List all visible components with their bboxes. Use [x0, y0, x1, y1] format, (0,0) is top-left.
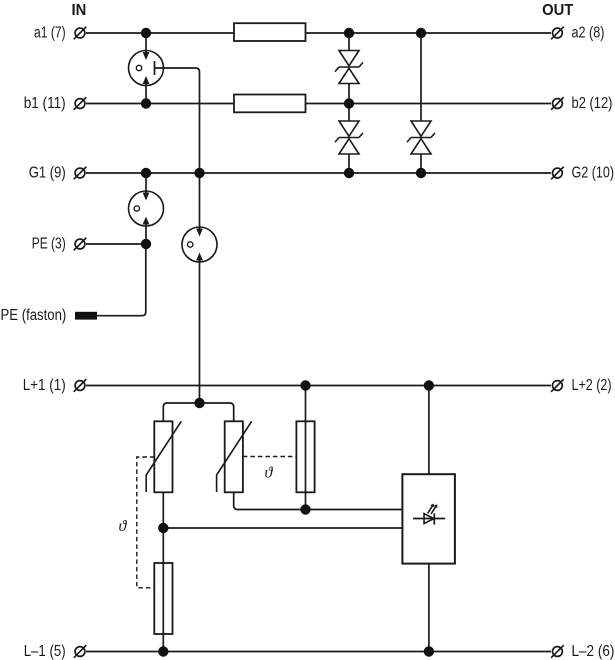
junction F5/L- [158, 646, 168, 656]
wire LED box to L- [428, 564, 430, 652]
terminal L-1 (5) [24, 643, 87, 660]
terminal b1 (11) [24, 95, 87, 112]
suppressor diode V2 (b2-G2) [335, 104, 363, 174]
wire RV2 to bus A [234, 492, 403, 510]
thermal link ϑ RV2-F4 (dashed) [243, 456, 297, 458]
wire node to LED box (bus B) [163, 527, 402, 529]
svg-text:b2 (12): b2 (12) [572, 95, 613, 112]
junction GDT3/varistor bus [194, 398, 204, 408]
junction RV1/bus B [158, 523, 168, 533]
terminal PE (3) [32, 236, 87, 253]
junction LED/L- [424, 646, 434, 656]
wire GDT3 to varistor bus (crosses L+ line) [199, 261, 201, 404]
svg-text:L+2 (2): L+2 (2) [572, 377, 612, 394]
junction PE/GDT2 [141, 239, 151, 249]
varistor RV1 [146, 421, 181, 492]
junction F4/bus A [300, 504, 310, 514]
svg-text:IN: IN [72, 2, 87, 19]
theta label 2 [119, 518, 128, 535]
svg-text:a1 (7): a1 (7) [34, 25, 66, 42]
wire L+1-L+2 [86, 385, 551, 387]
svg-text:PE (faston): PE (faston) [1, 307, 67, 324]
svg-text:a2 (8): a2 (8) [572, 25, 605, 42]
terminal G1 (9) [29, 165, 87, 182]
wire L-1-L-2 [86, 651, 551, 653]
PE faston blade [75, 312, 97, 320]
wire G1 to GDT3 [199, 173, 201, 229]
thermal link ϑ RV1-F5 (dashed) [137, 457, 155, 588]
wire PE to faston [97, 244, 146, 316]
disconnector F5 [154, 563, 172, 634]
terminal G2 (10) [551, 165, 614, 182]
terminal a2 (8) [551, 25, 604, 42]
junction a2/V3 [416, 28, 426, 38]
suppressor diode V3 (a2-G2) [407, 33, 435, 173]
junction G1/GDT2 [141, 168, 151, 178]
junction L+/LED [424, 380, 434, 390]
wire GDT2 to PE junction [145, 225, 147, 245]
terminal a1 (7) [34, 25, 86, 42]
svg-text:L–1 (5): L–1 (5) [24, 643, 66, 660]
svg-text:L–2 (6): L–2 (6) [572, 643, 615, 660]
svg-text:L+1 (1): L+1 (1) [23, 377, 66, 394]
junction b1/GDT1 [141, 98, 151, 108]
junction a2/V1 [344, 28, 354, 38]
junction G2/V3 [416, 168, 426, 178]
wire L+ to LED box [428, 386, 430, 475]
terminal b2 (12) [551, 95, 612, 112]
junction G1/GDT3 [194, 168, 204, 178]
svg-text:OUT: OUT [542, 2, 573, 19]
svg-text:b1 (11): b1 (11) [24, 95, 66, 112]
wire a1 junction to GDT1 [145, 33, 147, 53]
gas discharge tube F3 (2-electrode) [182, 227, 217, 262]
wire GDT1 to b1 junction [145, 84, 147, 104]
LED indicator box U1 [402, 474, 455, 563]
terminal L+1 (1) [23, 377, 87, 394]
gas discharge tube F1 (3-electrode) [129, 51, 164, 86]
wire PE [86, 243, 146, 245]
junction a1/GDT1 [141, 28, 151, 38]
svg-text:G2 (10): G2 (10) [572, 165, 615, 182]
wire varistor bus [163, 403, 233, 421]
header OUT [542, 2, 573, 19]
junction b2/V2 [344, 98, 354, 108]
varistor RV2 [217, 421, 252, 492]
disconnector F4 [296, 421, 314, 492]
svg-text:G1 (9): G1 (9) [29, 165, 66, 182]
resistor R2 [234, 95, 306, 113]
wire G1-G2 [86, 172, 551, 174]
junction G2/V2 [344, 168, 354, 178]
resistor R1 [234, 23, 306, 41]
wire RV1 to node [162, 492, 164, 528]
suppressor diode V1 (a2-b2) [335, 33, 363, 104]
terminal L+2 (2) [551, 377, 611, 394]
wire GDT1 electrode to earth column [155, 68, 200, 173]
wire b1-b2 [86, 103, 551, 105]
svg-text:ϑ: ϑ [119, 518, 128, 535]
wire L+ to disconnector F4 [305, 386, 307, 510]
label PE (faston) [1, 307, 67, 324]
theta label 1 [265, 465, 274, 482]
terminal L-2 (6) [551, 643, 614, 660]
gas discharge tube F2 (2-electrode) [129, 191, 164, 226]
svg-text:ϑ: ϑ [265, 465, 274, 482]
svg-text:PE (3): PE (3) [32, 236, 66, 253]
header IN [72, 2, 87, 19]
wire G1 junction to GDT2 [145, 173, 147, 194]
wire a1-a2 [86, 32, 551, 34]
wire node to disconnector F5 [162, 528, 164, 652]
junction L+/F4 [300, 380, 310, 390]
